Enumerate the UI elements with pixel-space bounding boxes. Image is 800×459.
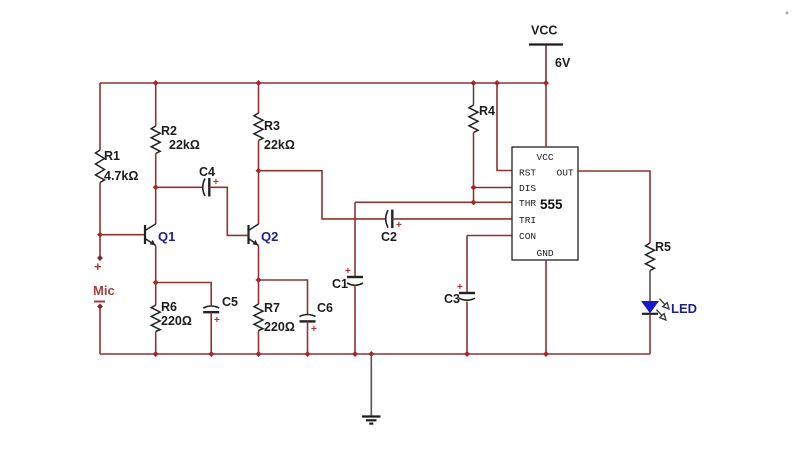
junction: top rail VCC	[543, 80, 549, 86]
junction: DIS node	[471, 185, 477, 191]
wire: THR line down to C1	[354, 202, 356, 276]
wire: C6 to bottom rail	[307, 322, 309, 354]
wire: GND pin to bottom rail	[545, 260, 547, 354]
wire: bottom ground rail	[100, 353, 650, 355]
junction: C1 bottom rail	[352, 351, 358, 357]
svg-text:Q1: Q1	[158, 229, 175, 244]
ground	[362, 417, 381, 424]
svg-text:C1: C1	[332, 277, 348, 291]
transistor Q2	[249, 224, 259, 246]
svg-text:VCC: VCC	[531, 24, 557, 38]
svg-text:LED: LED	[671, 301, 697, 316]
wire: Q1 base wire	[100, 234, 145, 236]
wire: CON down to C3	[466, 236, 468, 293]
junction: top rail RST wire	[494, 80, 500, 86]
artifact dot top right	[786, 12, 789, 15]
wire: RST from top rail	[497, 83, 512, 171]
wire: ground stem	[370, 354, 372, 416]
wire: C3 to bottom rail	[466, 302, 468, 355]
resistor R3	[254, 113, 263, 141]
svg-text:220Ω: 220Ω	[161, 314, 192, 328]
transistor Q1	[145, 224, 156, 246]
wire: R4 to DIS/THR junctions	[473, 133, 475, 203]
wire: R3 branch from top rail	[258, 83, 260, 113]
wire: R2 to collector node	[155, 154, 157, 188]
junction: C6 bottom rail	[305, 351, 311, 357]
svg-text:C3: C3	[444, 292, 460, 306]
power VCC supply	[529, 45, 563, 84]
resistor R2	[151, 126, 160, 154]
wire: R4 branch from top rail	[473, 83, 475, 105]
junction: C3 bottom rail	[464, 351, 470, 357]
wire: CON line	[467, 235, 512, 237]
svg-text:6V: 6V	[555, 56, 571, 70]
svg-text:R1: R1	[104, 149, 120, 163]
resistor R5	[646, 243, 655, 271]
wire: node to C4 left plate	[156, 186, 202, 188]
svg-text:DIS: DIS	[519, 183, 536, 194]
junction: base wire Q1 on left rail	[97, 232, 103, 238]
microphone minus terminal	[97, 304, 103, 310]
LED D1	[642, 299, 669, 320]
junction: C5 bottom rail	[208, 351, 214, 357]
wire: C2 to TRI pin	[392, 218, 512, 220]
junction: THR node	[471, 199, 477, 205]
capacitor C6	[300, 315, 316, 322]
wire: OUT to R5	[578, 171, 650, 243]
wire: DIS line	[474, 187, 513, 189]
svg-text:R6: R6	[161, 300, 177, 314]
wire: LED to bottom rail	[649, 314, 651, 354]
junction: R7 bottom rail	[256, 351, 262, 357]
wire: C5 to bottom rail	[210, 313, 212, 355]
svg-text:OUT: OUT	[557, 168, 574, 179]
resistor R6	[151, 305, 160, 332]
wire: node to R6	[155, 283, 157, 306]
svg-text:R2: R2	[161, 124, 177, 138]
junction: ground stem on bottom rail	[368, 351, 374, 357]
svg-text:C5: C5	[222, 295, 238, 309]
wire: R7 to bottom rail	[258, 331, 260, 355]
wire: node to C6	[259, 280, 308, 314]
svg-text:+: +	[214, 315, 220, 326]
svg-text:CON: CON	[519, 231, 536, 242]
junction: Q1 emitter / R6 / C5 node	[153, 280, 159, 286]
junction: R2 / C4 / Q1 collector node	[153, 184, 159, 190]
wire: R3 to collector node	[258, 141, 260, 171]
svg-text:R5: R5	[655, 240, 671, 254]
capacitor C4	[203, 178, 210, 197]
wire: C4 to Q2 base	[209, 187, 248, 235]
wire: left rail R1 to mic	[99, 183, 101, 259]
resistor R7	[254, 304, 263, 331]
microphone Mic plus terminal	[97, 255, 103, 261]
svg-text:+: +	[457, 282, 463, 293]
capacitor C5	[203, 306, 219, 312]
wire: collector node to C2 left plate	[259, 171, 386, 219]
svg-text:TRI: TRI	[519, 215, 536, 226]
wire: left rail mic to bottom rail	[99, 307, 101, 355]
svg-text:R4: R4	[479, 104, 495, 118]
wire: R6 to bottom rail	[155, 332, 157, 355]
op-amp U1 555 timer box	[512, 147, 578, 260]
svg-text:+: +	[396, 220, 402, 231]
svg-text:RST: RST	[519, 168, 536, 179]
wire: collector node to Q1	[155, 187, 157, 224]
svg-text:220Ω: 220Ω	[264, 320, 295, 334]
wire: C1 to bottom rail	[354, 286, 356, 355]
svg-text:GND: GND	[537, 248, 554, 259]
wire: Q2 emitter down	[258, 246, 260, 281]
svg-text:Mic: Mic	[93, 283, 115, 298]
junction: Q2 emitter / R7 / C6 node	[256, 277, 262, 283]
svg-text:+: +	[345, 266, 351, 277]
svg-text:22kΩ: 22kΩ	[169, 138, 200, 152]
svg-text:C2: C2	[381, 230, 397, 244]
svg-text:+: +	[94, 259, 102, 274]
svg-text:R3: R3	[264, 119, 280, 133]
capacitor C2	[386, 210, 393, 229]
svg-text:22kΩ: 22kΩ	[264, 138, 295, 152]
svg-text:C6: C6	[317, 301, 333, 315]
wire: node to C5	[156, 283, 212, 306]
wire: top power rail	[100, 82, 546, 84]
capacitor C3	[459, 293, 475, 300]
svg-text:+: +	[213, 177, 219, 188]
svg-text:VCC: VCC	[537, 152, 554, 163]
wire: left rail top corner to R1	[99, 83, 101, 150]
junction: top rail R2	[153, 80, 159, 86]
junction: top rail R3	[256, 80, 262, 86]
wire: VCC pin to rail	[545, 83, 547, 147]
svg-text:Q2: Q2	[261, 229, 278, 244]
wire: THR line	[355, 201, 512, 203]
junction: GND pin bottom rail	[543, 351, 549, 357]
wire: R2 branch from top rail	[155, 83, 157, 126]
capacitor C1	[347, 277, 363, 285]
svg-text:4.7kΩ: 4.7kΩ	[104, 169, 138, 183]
resistor R4	[469, 105, 478, 133]
junction: R3 / Q2 collector / C2 node	[256, 168, 262, 174]
resistor R1	[96, 150, 105, 183]
svg-text:R7: R7	[264, 301, 280, 315]
wire: Q1 emitter down	[155, 246, 157, 283]
junction: R6 bottom rail	[153, 351, 159, 357]
wire: node to R7	[258, 280, 260, 304]
svg-text:555: 555	[540, 197, 563, 212]
wire: R5 to LED	[649, 271, 651, 302]
wire: collector node to Q2	[258, 171, 260, 224]
microphone minus sign	[94, 301, 105, 303]
junction: top rail R4	[471, 80, 477, 86]
svg-text:+: +	[311, 324, 317, 335]
svg-text:THR: THR	[519, 198, 536, 209]
